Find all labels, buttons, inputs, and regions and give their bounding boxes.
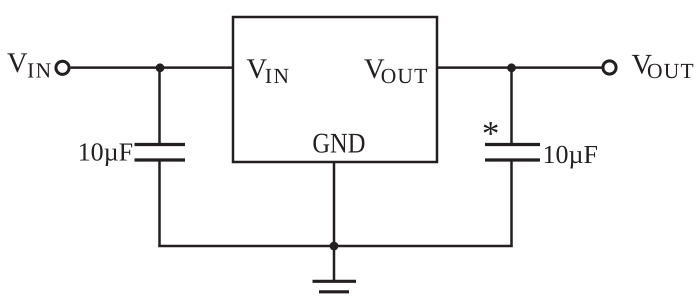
wire bottom rail: [158, 245, 513, 248]
svg-text:10µF: 10µF: [543, 140, 598, 169]
pin label V_IN (U1): [247, 54, 291, 88]
wire junction down to C2: [510, 68, 513, 145]
wire C2 down to bottom rail: [510, 160, 513, 246]
regulator U1 body: [233, 17, 437, 162]
svg-text:OUT: OUT: [647, 59, 695, 83]
pin label V_OUT (U1): [364, 54, 428, 88]
ground symbol: [313, 281, 357, 292]
junction node at input capacitor: [156, 63, 165, 72]
svg-text:IN: IN: [265, 64, 291, 88]
wire GND pin down to bottom rail: [333, 162, 336, 246]
junction node at output capacitor: [507, 63, 516, 72]
wire junction down to ground symbol: [333, 246, 336, 281]
wire regulator V_OUT pin to output terminal: [437, 66, 602, 69]
svg-text:OUT: OUT: [381, 64, 429, 88]
label V_OUT (output terminal): [632, 50, 695, 83]
svg-text:*: *: [482, 114, 500, 153]
capacitor C1 (10uF input): [135, 145, 186, 161]
wire junction down to C1: [158, 68, 161, 145]
input terminal circle: [56, 61, 69, 74]
svg-text:GND: GND: [312, 128, 365, 159]
wire input terminal to regulator V_IN pin: [71, 66, 233, 69]
label V_IN (input terminal): [7, 48, 53, 83]
svg-text:V: V: [7, 48, 28, 79]
capacitor C2 (10uF output): [485, 145, 540, 161]
svg-text:IN: IN: [27, 59, 52, 83]
svg-text:10µF: 10µF: [78, 138, 133, 167]
junction node at ground: [330, 242, 339, 251]
wire C1 down to bottom rail: [158, 160, 161, 246]
output terminal circle: [603, 61, 616, 74]
